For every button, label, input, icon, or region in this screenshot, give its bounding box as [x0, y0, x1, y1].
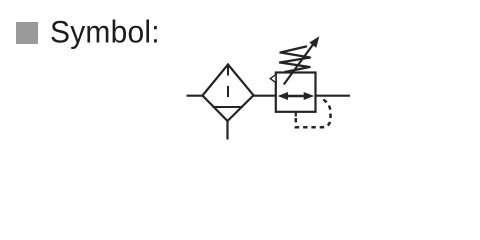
wire: filter-to-regulator line: [252, 95, 277, 97]
adjustment arrow: [284, 43, 315, 85]
wire: outlet line: [315, 95, 351, 97]
regulator flow arrow (double-headed): [285, 95, 307, 98]
water separator chord: [213, 106, 243, 108]
gray square bullet: [16, 22, 38, 44]
wire: drain line: [226, 120, 228, 140]
filter bowl (diamond): [203, 65, 254, 122]
relief vent triangle: [270, 75, 276, 83]
adjustment spring: [280, 47, 310, 73]
filter-regulator schematic: [0, 0, 480, 173]
pilot feedback line (dashed): [296, 98, 331, 128]
filter element (dashed center line): [227, 66, 229, 76]
regulator body (square): [276, 73, 316, 112]
pilot line stub: [295, 112, 297, 117]
label "Symbol:": [50, 15, 160, 51]
wire: inlet line: [187, 95, 205, 97]
